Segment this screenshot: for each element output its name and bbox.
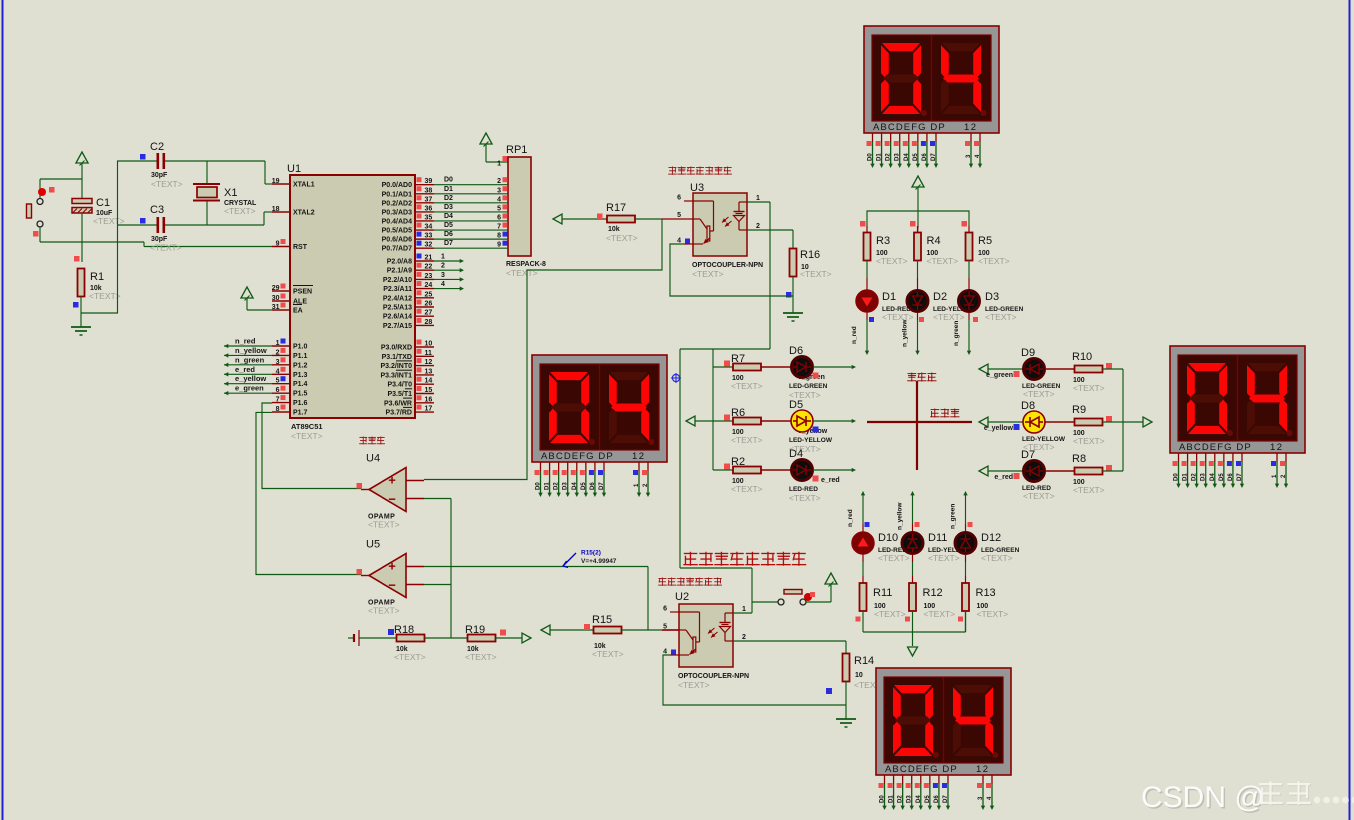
LED D2 LED-YELLOW — [907, 291, 977, 323]
wire power to button/C1 — [40, 178, 82, 180]
sheet border left — [2, 0, 4, 820]
svg-text:P1.5: P1.5 — [293, 391, 308, 398]
svg-text:P1.3: P1.3 — [293, 372, 308, 379]
svg-text:P2.6/A14: P2.6/A14 — [383, 314, 412, 321]
svg-text:RP1: RP1 — [506, 144, 527, 156]
svg-text:D5: D5 — [1219, 473, 1225, 481]
label side-road detect (U3) — [668, 166, 732, 174]
svg-text:P1.2: P1.2 — [293, 362, 308, 369]
capacitor C3 — [117, 204, 264, 253]
svg-text:10: 10 — [425, 341, 433, 348]
LED D4 LED-RED — [789, 448, 821, 503]
svg-text:R1: R1 — [90, 271, 104, 283]
svg-text:n_red: n_red — [851, 326, 858, 344]
svg-text:e_red: e_red — [821, 477, 840, 484]
label side road — [907, 373, 936, 382]
svg-text:<TEXT>: <TEXT> — [1023, 389, 1055, 399]
svg-text:D5: D5 — [925, 795, 931, 803]
svg-text:4: 4 — [441, 281, 445, 288]
wire D4 east arrow — [813, 468, 856, 472]
resistor R15 — [550, 614, 624, 659]
resistor R16 — [790, 249, 832, 280]
svg-text:21: 21 — [425, 255, 433, 262]
svg-text:P2.7/A15: P2.7/A15 — [383, 323, 412, 330]
svg-text:3: 3 — [441, 272, 445, 279]
resistor R4 — [914, 233, 958, 267]
wire P1.7 to U5 output — [256, 412, 361, 574]
resistor R3 — [864, 233, 908, 267]
svg-text:D3: D3 — [563, 482, 569, 490]
LED D6 LED-GREEN — [789, 345, 828, 400]
svg-text:D1: D1 — [889, 795, 895, 803]
svg-text:19: 19 — [272, 178, 280, 185]
wire D8 to R9 — [1045, 421, 1075, 423]
svg-text:P2.4/A12: P2.4/A12 — [383, 295, 412, 302]
svg-text:D5: D5 — [789, 399, 803, 411]
svg-text:23: 23 — [425, 273, 433, 280]
svg-text:4: 4 — [276, 368, 280, 375]
wire C2C3 ground return — [81, 312, 118, 314]
svg-text:<TEXT>: <TEXT> — [927, 256, 959, 266]
svg-text:R8: R8 — [1072, 453, 1086, 465]
svg-text:R15(2): R15(2) — [581, 550, 601, 557]
label main road — [930, 409, 959, 418]
svg-text:P1.1: P1.1 — [293, 353, 308, 360]
svg-text:12: 12 — [964, 122, 978, 133]
svg-text:P3.6/WR: P3.6/WR — [384, 400, 412, 407]
wire R7 to D6 — [761, 366, 791, 368]
svg-text:R5: R5 — [978, 235, 992, 247]
svg-text:24: 24 — [425, 282, 433, 289]
svg-text:D4: D4 — [444, 213, 453, 220]
wire R10 east — [1103, 368, 1124, 370]
svg-text:<TEXT>: <TEXT> — [924, 609, 956, 619]
svg-text:12: 12 — [976, 764, 990, 775]
terminal arrow R17 input — [553, 214, 562, 224]
svg-text:P3.5/T1: P3.5/T1 — [387, 391, 412, 398]
wire D9 to R10 — [1045, 368, 1075, 370]
wire P1.6 to U4 output — [262, 403, 361, 489]
wire west arrow to D8 — [979, 417, 1023, 427]
capacitor C1 — [72, 179, 125, 242]
svg-text:R4: R4 — [927, 235, 941, 247]
svg-text:<TEXT>: <TEXT> — [985, 312, 1017, 322]
power +5V terminal button — [825, 573, 837, 602]
optocoupler U2 OPTOCOUPLER-NPN — [662, 591, 749, 690]
svg-text:6: 6 — [663, 606, 667, 613]
net label e_red (east) — [994, 473, 1019, 481]
watermark CSDN — [1141, 781, 1354, 816]
wires north LEDs to nets — [851, 312, 978, 355]
wire node R17 to U4+ — [424, 219, 662, 480]
svg-text:ABCDEFG DP: ABCDEFG DP — [1179, 442, 1252, 453]
svg-text:P0.3/AD3: P0.3/AD3 — [382, 209, 412, 216]
svg-text:<TEXT>: <TEXT> — [878, 553, 910, 563]
wire R8 east — [1103, 470, 1124, 472]
svg-text:<TEXT>: <TEXT> — [731, 435, 763, 445]
svg-text:<TEXT>: <TEXT> — [368, 606, 400, 616]
svg-text:<TEXT>: <TEXT> — [800, 269, 832, 279]
wire caps to ground rail — [117, 161, 119, 313]
svg-text:P3.7/RD: P3.7/RD — [386, 410, 412, 417]
wire R16 to ground — [786, 277, 793, 314]
svg-text:2: 2 — [756, 223, 760, 230]
net label e_red (west) — [813, 476, 840, 485]
svg-text:n_green: n_green — [953, 321, 960, 346]
wire east column join — [1122, 369, 1124, 471]
svg-text:12: 12 — [425, 359, 433, 366]
svg-text:P2.5/A13: P2.5/A13 — [383, 305, 412, 312]
resistor R12 — [909, 583, 955, 619]
road crossing vertical — [916, 381, 918, 470]
svg-text:11: 11 — [425, 350, 433, 357]
wire RST net — [40, 242, 272, 247]
svg-text:9: 9 — [276, 241, 280, 248]
sheet border right — [1349, 0, 1351, 820]
wire U4- to ref node — [424, 499, 451, 639]
net label e_green (east) — [986, 371, 1019, 379]
svg-text:D3: D3 — [907, 795, 913, 803]
svg-text:1: 1 — [756, 195, 760, 202]
svg-text:P0.5/AD5: P0.5/AD5 — [382, 228, 412, 235]
svg-text:16: 16 — [425, 396, 433, 403]
resistor R13 — [962, 583, 1008, 619]
resistor R11 — [860, 583, 906, 619]
power +5V terminal RP1 — [480, 133, 492, 162]
svg-text:n_green: n_green — [950, 504, 957, 529]
svg-text:D4: D4 — [904, 153, 910, 161]
svg-text:−: − — [388, 578, 396, 593]
svg-text:D2: D2 — [886, 153, 892, 161]
svg-text:RESPACK-8: RESPACK-8 — [506, 261, 546, 268]
junction marker (blue) — [671, 373, 681, 383]
wire XTAL2 — [264, 212, 272, 225]
svg-text:<TEXT>: <TEXT> — [876, 256, 908, 266]
svg-text:e_green: e_green — [986, 372, 1013, 379]
wire U3 pin2 to R16 — [747, 230, 793, 249]
svg-text:EA: EA — [293, 308, 303, 315]
resistor R6 — [713, 407, 763, 445]
svg-text:P2.1/A9: P2.1/A9 — [387, 268, 412, 275]
svg-text:e_yellow: e_yellow — [984, 425, 1014, 432]
svg-text:7: 7 — [497, 224, 501, 231]
svg-text:7: 7 — [276, 397, 280, 404]
svg-text:D5: D5 — [581, 482, 587, 490]
wire R9 east — [1103, 421, 1124, 423]
svg-text:12: 12 — [1270, 442, 1284, 453]
svg-text:32: 32 — [425, 242, 433, 249]
svg-text:D0: D0 — [444, 177, 453, 184]
svg-text:6: 6 — [497, 214, 501, 221]
svg-text:e_yellow: e_yellow — [235, 374, 266, 383]
svg-text:D1: D1 — [882, 291, 896, 303]
wire north rail — [860, 211, 969, 233]
wire XTAL1 — [265, 161, 272, 184]
svg-text:P0.4/AD4: P0.4/AD4 — [382, 218, 412, 225]
svg-text:25: 25 — [425, 291, 433, 298]
svg-text:P0.2/AD2: P0.2/AD2 — [382, 200, 412, 207]
resistor R5 — [966, 233, 1010, 267]
svg-text:<TEXT>: <TEXT> — [394, 652, 426, 662]
microcontroller U1 AT89C51 — [272, 163, 434, 441]
svg-text:<TEXT>: <TEXT> — [692, 269, 724, 279]
svg-text:−: − — [388, 492, 396, 507]
svg-text:D6: D6 — [1228, 473, 1234, 481]
svg-text:10k: 10k — [608, 226, 620, 233]
svg-text:P1.6: P1.6 — [293, 400, 308, 407]
resistor R7 — [713, 353, 763, 391]
wire EA — [247, 309, 272, 311]
ground U3/R16 — [783, 313, 803, 321]
wire P1.0 net n_red — [224, 337, 272, 349]
svg-text:D6: D6 — [789, 345, 803, 357]
svg-text:<TEXT>: <TEXT> — [150, 243, 182, 253]
svg-text:31: 31 — [272, 304, 280, 311]
svg-text:<TEXT>: <TEXT> — [1023, 491, 1055, 501]
svg-text:D1: D1 — [877, 153, 883, 161]
label side-road detect (U2) — [658, 577, 722, 585]
svg-text:n_yellow: n_yellow — [235, 346, 267, 355]
pushbutton reset — [27, 187, 55, 237]
resistor R14 — [826, 654, 886, 695]
svg-text:8: 8 — [276, 406, 280, 413]
wire P1.1 net n_yellow — [224, 346, 272, 358]
svg-text:D2: D2 — [933, 291, 947, 303]
svg-text:P3.3/INT1: P3.3/INT1 — [380, 372, 412, 379]
svg-text:LED-RED: LED-RED — [789, 486, 818, 493]
wire R6 to D5 — [761, 420, 791, 422]
battery cell ref — [348, 630, 397, 646]
svg-text:ABCDEFG DP: ABCDEFG DP — [541, 451, 614, 462]
net label e_green (west) — [798, 373, 825, 382]
svg-text:R11: R11 — [873, 587, 892, 599]
svg-text:29: 29 — [272, 285, 280, 292]
ground U2/R14 — [836, 719, 856, 727]
svg-text:R10: R10 — [1072, 351, 1092, 363]
wires P2.0-P2.3 nets 1-4 — [434, 254, 464, 291]
svg-text:R18: R18 — [394, 624, 414, 636]
svg-text:30: 30 — [272, 295, 280, 302]
svg-text:<TEXT>: <TEXT> — [592, 649, 624, 659]
svg-text:U4: U4 — [366, 453, 380, 465]
op-amp U5 OPAMP — [357, 539, 425, 616]
wire P1.3 net e_red — [224, 365, 272, 377]
7-segment display (top, north road) — [864, 26, 999, 168]
wire D5 east arrow — [813, 419, 856, 423]
svg-text:D6: D6 — [934, 795, 940, 803]
voltage probe R15(2) — [563, 550, 617, 568]
svg-text:C1: C1 — [96, 197, 110, 209]
svg-text:D6: D6 — [590, 482, 596, 490]
LED D11 LED-YELLOW — [902, 532, 972, 563]
svg-text:P1.4: P1.4 — [293, 381, 308, 388]
svg-text:D2: D2 — [898, 795, 904, 803]
wire R14 to ground — [845, 682, 847, 720]
LED D5 LED-YELLOW — [789, 399, 833, 454]
svg-text:17: 17 — [425, 406, 433, 413]
svg-text:D2: D2 — [554, 482, 560, 490]
svg-text:LED-YELLOW: LED-YELLOW — [789, 437, 833, 444]
wire long vertical net (button net) — [679, 349, 681, 568]
svg-text:<TEXT>: <TEXT> — [978, 256, 1010, 266]
wire P1.2 net n_green — [224, 355, 272, 367]
wire R17 to U3 pin5 — [635, 218, 662, 220]
wires R3-R5 to LEDs — [867, 226, 969, 290]
wires south LEDs nets — [847, 491, 973, 532]
svg-text:PSEN: PSEN — [293, 289, 312, 296]
svg-text:22: 22 — [425, 264, 433, 271]
svg-text:2: 2 — [497, 178, 501, 185]
svg-text:n_green: n_green — [235, 355, 265, 364]
svg-text:26: 26 — [425, 301, 433, 308]
power +5V terminal EA — [241, 287, 253, 310]
resistor R17 — [562, 202, 638, 243]
svg-text:P2.2/A10: P2.2/A10 — [383, 277, 412, 284]
svg-text:D4: D4 — [789, 448, 803, 460]
svg-text:P0.6/AD6: P0.6/AD6 — [382, 237, 412, 244]
svg-text:P2.0/A8: P2.0/A8 — [387, 259, 412, 266]
svg-text:RST: RST — [293, 244, 308, 251]
svg-text:5: 5 — [663, 624, 667, 631]
svg-text:D0: D0 — [880, 795, 886, 803]
svg-text:D7: D7 — [1237, 473, 1243, 481]
svg-text:D12: D12 — [981, 532, 1001, 544]
svg-text:D7: D7 — [931, 153, 937, 161]
LED D9 LED-GREEN — [1021, 347, 1061, 399]
svg-text:2: 2 — [441, 263, 445, 270]
svg-text:<TEXT>: <TEXT> — [981, 553, 1013, 563]
svg-text:e_red: e_red — [994, 474, 1013, 481]
ground (reset) — [71, 327, 91, 335]
svg-text:D5: D5 — [913, 153, 919, 161]
svg-text:P3.0/RXD: P3.0/RXD — [381, 345, 412, 352]
svg-text:D4: D4 — [916, 795, 922, 803]
svg-text:OPTOCOUPLER-NPN: OPTOCOUPLER-NPN — [678, 673, 749, 680]
svg-text:3: 3 — [497, 187, 501, 194]
svg-text:<TEXT>: <TEXT> — [151, 179, 183, 189]
7-segment display (middle, west road) — [532, 355, 667, 497]
svg-text:1: 1 — [497, 161, 501, 168]
svg-text:D0: D0 — [536, 482, 542, 490]
svg-text:10: 10 — [855, 672, 863, 679]
LED D3 LED-GREEN — [959, 291, 1024, 323]
svg-text:P0.1/AD1: P0.1/AD1 — [382, 191, 412, 198]
wire south rail — [856, 611, 966, 646]
wire button bottom — [39, 227, 41, 242]
power +5V terminal (reset) — [76, 152, 88, 179]
wire U3 pin1 down long — [747, 202, 770, 349]
svg-text:AT89C51: AT89C51 — [291, 422, 323, 431]
svg-text:D7: D7 — [599, 482, 605, 490]
terminal arrow west yellow row — [686, 416, 713, 426]
svg-text:<TEXT>: <TEXT> — [368, 520, 400, 530]
svg-text:1: 1 — [742, 606, 746, 613]
svg-text:D1: D1 — [1183, 473, 1189, 481]
svg-text:D3: D3 — [895, 153, 901, 161]
svg-text:D1: D1 — [545, 482, 551, 490]
svg-text:33: 33 — [425, 233, 433, 240]
svg-text:P0.7/AD7: P0.7/AD7 — [382, 246, 412, 253]
svg-text:8: 8 — [497, 233, 501, 240]
wire button top — [39, 179, 41, 198]
svg-text:<TEXT>: <TEXT> — [731, 381, 763, 391]
net label e_yellow (east) — [984, 424, 1020, 432]
svg-text:P1.0: P1.0 — [293, 344, 308, 351]
svg-text:U3: U3 — [690, 182, 704, 194]
svg-text:30pF: 30pF — [151, 172, 168, 179]
svg-text:<TEXT>: <TEXT> — [291, 431, 323, 441]
svg-text:C2: C2 — [150, 141, 164, 153]
svg-text:P3.4/T0: P3.4/T0 — [387, 382, 412, 389]
wire D6 east arrow — [813, 365, 856, 369]
svg-text:6: 6 — [677, 195, 681, 202]
svg-text:OPTOCOUPLER-NPN: OPTOCOUPLER-NPN — [692, 262, 763, 269]
svg-text:R14: R14 — [854, 655, 874, 667]
svg-text:D7: D7 — [1021, 449, 1035, 461]
svg-text:36: 36 — [425, 205, 433, 212]
wire P1.5 net e_green — [224, 384, 272, 396]
svg-text:P3.1/TXD: P3.1/TXD — [382, 354, 412, 361]
resistor R10 — [1072, 351, 1112, 393]
svg-text:P1.7: P1.7 — [293, 410, 308, 417]
wire R2 to D4 — [761, 469, 791, 471]
svg-text:1: 1 — [441, 254, 445, 261]
svg-text:e_green: e_green — [235, 384, 264, 393]
svg-text:D4: D4 — [572, 482, 578, 490]
wire R18-R19 — [425, 637, 469, 639]
svg-text:ABCDEFG DP: ABCDEFG DP — [885, 764, 958, 775]
resistor R18 — [388, 624, 426, 662]
svg-text:27: 27 — [425, 310, 433, 317]
resistor R1 — [74, 256, 121, 301]
svg-text:D10: D10 — [878, 532, 898, 544]
wire U5+ to R15 node — [424, 567, 648, 631]
wire R19 out + terminal — [496, 630, 532, 643]
svg-text:5: 5 — [677, 212, 681, 219]
svg-text:D3: D3 — [1201, 473, 1207, 481]
svg-text:R19: R19 — [465, 624, 485, 636]
svg-text:D6: D6 — [922, 153, 928, 161]
op-amp U4 OPAMP — [357, 453, 425, 530]
svg-text:5: 5 — [276, 378, 280, 385]
svg-text:U2: U2 — [675, 591, 689, 603]
svg-text:R17: R17 — [606, 202, 626, 214]
svg-text:2: 2 — [742, 634, 746, 641]
svg-text:V=+4.99947: V=+4.99947 — [581, 558, 617, 565]
label comparator — [359, 436, 385, 444]
svg-text:+: + — [388, 559, 396, 574]
svg-text:e_red: e_red — [235, 365, 255, 374]
wire button right — [806, 601, 831, 603]
svg-text:R3: R3 — [876, 235, 890, 247]
wire west arrow to D9 — [979, 364, 1023, 374]
svg-text:D0: D0 — [868, 153, 874, 161]
wire RP1 pin1 — [486, 156, 508, 168]
svg-text:R13: R13 — [976, 587, 996, 599]
LED D7 LED-RED — [1021, 449, 1055, 501]
svg-text:n_yellow: n_yellow — [902, 319, 909, 347]
svg-text:n_red: n_red — [235, 337, 256, 346]
road crossing horizontal — [867, 421, 972, 423]
7-segment display (bottom, south road) — [876, 668, 1011, 810]
svg-text:12: 12 — [632, 451, 646, 462]
svg-text:15: 15 — [425, 387, 433, 394]
svg-text:LED-GREEN: LED-GREEN — [789, 383, 828, 390]
svg-text:9: 9 — [497, 242, 501, 249]
svg-text:X1: X1 — [224, 187, 237, 199]
svg-text:R7: R7 — [731, 353, 745, 365]
svg-text:D7: D7 — [444, 240, 453, 247]
